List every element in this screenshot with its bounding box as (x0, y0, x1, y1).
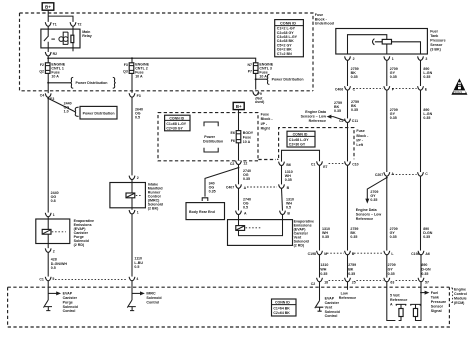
svg-text:GY: GY (388, 267, 394, 271)
svg-text:428: 428 (51, 257, 57, 261)
connector C1 pin 5 (ECM) (39, 277, 54, 282)
svg-text:1: 1 (53, 213, 55, 217)
svg-text:25: 25 (352, 281, 356, 285)
wire fuse N7 to F9 (255, 73, 257, 89)
svg-text:I/P -: I/P - (261, 122, 268, 126)
fuel tank pressure sensor label (430, 29, 445, 51)
wire 2759 BK 0.35 C406 to C2/C11 (347, 90, 349, 118)
wire B+ to relay branch (48, 10, 73, 22)
svg-text:Purge: Purge (63, 300, 73, 304)
junction bus at F2 (47, 57, 49, 59)
wire 890 L-GN 0.35 C406 to C207 (420, 90, 422, 172)
svg-text:IMRC: IMRC (146, 292, 156, 296)
svg-text:B+: B+ (236, 104, 242, 109)
connector C198 pin A6 (411, 251, 430, 256)
svg-text:Engine Data: Engine Data (305, 110, 327, 114)
wire label 2709 GY 0.35 (ecm) (388, 263, 396, 276)
wire 2740 OG 0.5 (238, 188, 240, 210)
svg-text:Vent: Vent (325, 305, 333, 309)
fuse block I/P left label (356, 129, 369, 147)
svg-text:Reference: Reference (390, 298, 407, 302)
svg-text:Fuel: Fuel (430, 29, 437, 33)
svg-text:Solenoid: Solenoid (146, 296, 161, 300)
connector terminal T1 (45, 22, 51, 26)
svg-text:CONN ID: CONN ID (275, 301, 290, 305)
wire label 890 L-GN 0.35 (423, 67, 432, 79)
connector C1 pin 4 (ECM) (129, 277, 138, 281)
svg-text:57: 57 (425, 281, 429, 285)
svg-text:Signal: Signal (431, 309, 442, 313)
svg-text:10 A: 10 A (51, 74, 59, 78)
svg-text:5C021: 5C021 (454, 90, 462, 94)
svg-text:C2=30 GY: C2=30 GY (166, 127, 183, 131)
svg-text:0.35: 0.35 (322, 235, 329, 239)
svg-text:F2: F2 (40, 63, 44, 67)
svg-text:C1=68 L-GY: C1=68 L-GY (289, 138, 309, 142)
svg-text:0.35: 0.35 (334, 109, 341, 113)
fuse N7 ENGINE CNTL 3 (248, 62, 274, 78)
svg-text:C10: C10 (352, 163, 358, 167)
svg-text:Power Distribution: Power Distribution (76, 81, 108, 85)
wire label 1310 WH 0.5 (286, 197, 294, 209)
svg-text:Module: Module (454, 296, 467, 300)
svg-text:A: A (390, 302, 393, 306)
svg-text:L-BU: L-BU (134, 261, 143, 265)
connector terminal R2 (45, 52, 51, 56)
svg-text:Fuel: Fuel (431, 291, 438, 295)
wire through fuse block I/P left (347, 123, 349, 162)
EVAP purge control label (63, 292, 78, 314)
wire label 2759 BK 0.35 (branch) (334, 101, 342, 113)
svg-text:M: M (324, 252, 327, 256)
ECM dashed boundary (8, 287, 450, 327)
svg-text:WH: WH (320, 267, 326, 271)
5 volt reference network (387, 282, 406, 321)
svg-text:(2 BK): (2 BK) (148, 206, 159, 210)
svg-text:C2=30 GY: C2=30 GY (289, 143, 306, 147)
svg-text:10 A: 10 A (259, 74, 267, 78)
svg-text:Tank: Tank (431, 296, 439, 300)
svg-text:Power: Power (204, 135, 215, 139)
svg-text:Power Distribution: Power Distribution (83, 111, 115, 115)
connector C407 pin B (279, 184, 290, 189)
svg-text:EVAP: EVAP (325, 297, 335, 301)
svg-text:Control: Control (146, 300, 159, 304)
connector pin row dotted C1 (55, 278, 127, 280)
svg-text:C1=68 L-GY: C1=68 L-GY (166, 122, 186, 126)
svg-text:0.5: 0.5 (286, 205, 291, 209)
connector terminal T2 (70, 22, 76, 26)
svg-text:0.35: 0.35 (390, 116, 397, 120)
svg-text:E6: E6 (231, 131, 235, 135)
svg-text:C207: C207 (375, 173, 383, 177)
svg-text:BK: BK (348, 267, 354, 271)
fuse block I/P right dashed boundary (158, 113, 258, 161)
wire label 2740 OG 0.5 (243, 197, 251, 209)
svg-text:T2: T2 (77, 22, 81, 26)
connector C4 / E3 (40, 93, 55, 100)
connector C2 pin 25 (345, 278, 384, 285)
svg-text:63: 63 (390, 281, 394, 285)
svg-text:Tank: Tank (430, 34, 438, 38)
svg-text:0.5: 0.5 (134, 265, 139, 269)
power distribution reference tap (F2) (47, 77, 115, 88)
svg-text:0.35: 0.35 (423, 235, 430, 239)
svg-text:B6: B6 (286, 163, 291, 167)
wire label 1310 WH 0.35 (mid) (322, 227, 330, 239)
connector C1 / E7 row (311, 161, 344, 169)
svg-text:(ECM): (ECM) (454, 301, 465, 305)
main relay coil assembly (51, 26, 73, 51)
svg-text:P7: P7 (248, 70, 252, 74)
svg-text:Sensors – Low: Sensors – Low (356, 213, 382, 217)
EVAP purge solenoid label (74, 219, 94, 247)
svg-text:5: 5 (52, 277, 54, 281)
svg-text:C2: C2 (311, 282, 316, 286)
wire 2640 OG 0.5 (131, 97, 133, 175)
svg-text:Left: Left (356, 143, 363, 147)
svg-text:C198: C198 (308, 252, 316, 256)
svg-text:used): used) (255, 100, 264, 104)
svg-text:Engine: Engine (454, 288, 466, 292)
svg-text:F6: F6 (231, 139, 235, 143)
svg-text:0.35: 0.35 (370, 198, 377, 202)
connector pin 2 (FTP sensor) (345, 56, 355, 61)
connector pin 1 (IMRC solenoid) (129, 210, 139, 214)
svg-text:Fuse: Fuse (243, 135, 251, 139)
svg-text:B+: B+ (45, 4, 51, 9)
svg-text:Sensor: Sensor (430, 43, 443, 47)
wire label 1310 WH 0.35 (285, 170, 293, 182)
svg-text:0.35: 0.35 (421, 272, 428, 276)
svg-text:2: 2 (53, 250, 55, 254)
wire label 890 D-GN 0.35 (lower) (423, 227, 433, 239)
wire 1310 WH 0.35 C407 to B6 (281, 166, 283, 185)
fuel tank pressure sensor box (336, 29, 428, 55)
wire jumper B6 to C1 inside fuse block (282, 150, 320, 161)
internal resistor 2 (410, 293, 421, 321)
svg-text:D-GN/WH: D-GN/WH (51, 262, 68, 266)
IMRC solenoid control driver (127, 281, 145, 311)
svg-text:R2: R2 (53, 52, 58, 56)
svg-text:C2=64 BK: C2=64 BK (273, 311, 290, 315)
svg-text:Power Distribution: Power Distribution (272, 78, 304, 82)
connector pin A (EVAP vent solenoid) (236, 211, 247, 216)
wire label 2740 OG 0.35 (243, 169, 251, 181)
connector C407 pin A (226, 184, 247, 189)
svg-text:C1: C1 (311, 162, 316, 166)
svg-text:2: 2 (353, 57, 355, 61)
wire 2440 OG 0.8 down to purge solenoid (47, 97, 49, 212)
svg-text:Engine Data: Engine Data (356, 208, 378, 212)
svg-text:Reference: Reference (309, 119, 326, 123)
engine data sensors low reference label (top) (301, 110, 327, 123)
engine control module label (451, 288, 466, 305)
connector C2 pin 12 (230, 161, 247, 166)
svg-text:0.35: 0.35 (423, 116, 430, 120)
wire 340 OG 0.35 branch to body rear end (202, 167, 239, 201)
wire 1110 L-BU 0.5 (131, 214, 133, 277)
svg-text:C2: C2 (339, 119, 344, 123)
connector pin 1 (EVAP purge solenoid) (45, 213, 55, 217)
wire 2440 OG 1.0 tap to power distribution (47, 98, 78, 117)
connector pin 2 (IMRC solenoid) (129, 176, 139, 180)
svg-text:C1=64 BK: C1=64 BK (273, 306, 290, 310)
svg-text:0.35: 0.35 (209, 189, 216, 193)
svg-text:Block -: Block - (356, 134, 369, 138)
IMRC solenoid box (110, 180, 145, 210)
5 volt reference label (390, 294, 407, 307)
connector C406 row (335, 86, 428, 91)
svg-text:(2 RD): (2 RD) (294, 243, 305, 247)
svg-text:Block -: Block - (261, 117, 274, 121)
B+ battery feed box B+ (top left) (42, 3, 54, 10)
svg-text:I/P -: I/P - (356, 138, 363, 142)
svg-text:2709: 2709 (388, 263, 396, 267)
wire 1310 WH 0.35 C1 to C198 (319, 165, 321, 250)
wire label 2440 OG 1.0 (64, 101, 72, 113)
wire label 1110 L-BU 0.5 (134, 256, 143, 269)
fuel tank pressure sensor signal tap (420, 282, 429, 295)
CONN ID table ECM (272, 299, 297, 316)
fuse F2 ENGINE CNTL 1 (39, 62, 65, 78)
wire 2759 BK 0.35 C10 to C198 (347, 165, 349, 250)
svg-text:0.35: 0.35 (351, 108, 358, 112)
svg-text:Underhood: Underhood (315, 22, 334, 26)
connector F9 (not used) (253, 91, 265, 104)
svg-text:Body Rear End: Body Rear End (189, 210, 215, 214)
svg-text:Q2: Q2 (39, 70, 44, 74)
svg-text:12: 12 (243, 162, 247, 166)
svg-text:4: 4 (136, 277, 138, 281)
svg-text:0.8: 0.8 (51, 199, 56, 203)
svg-text:18: 18 (324, 281, 328, 285)
svg-text:C2: C2 (230, 162, 235, 166)
engine data sensors low reference tap (top) (327, 115, 348, 122)
svg-text:0.35: 0.35 (243, 177, 250, 181)
EVAP canister vent solenoid box (228, 215, 293, 246)
svg-text:1: 1 (392, 57, 394, 61)
connector B6 (fuse block I/P) (279, 162, 291, 167)
svg-text:0.35: 0.35 (320, 272, 327, 276)
wire label 2709 GY 0.35 (mid) (390, 108, 398, 120)
svg-text:Relay: Relay (82, 34, 92, 38)
wire label 2759 BK 0.35 (351, 67, 359, 79)
wire R2 to fuse bus (47, 56, 49, 63)
svg-text:0.35: 0.35 (285, 178, 292, 182)
wire label 1310 WH 0.35 (ecm) (320, 263, 328, 276)
wire 2709 GY 0.35 C406 to C207 (386, 90, 388, 172)
wire 890 L-GN 0.35 pin3 to C406 (420, 60, 422, 86)
fuse block I/P left dashed boundary (258, 128, 354, 160)
power feed bus wire to three fuses (48, 58, 256, 63)
svg-text:Sensor: Sensor (431, 304, 444, 308)
svg-text:(3 BK): (3 BK) (430, 47, 441, 51)
svg-text:Q3: Q3 (123, 70, 128, 74)
svg-text:1310: 1310 (320, 263, 328, 267)
svg-text:CONN ID: CONN ID (280, 21, 296, 25)
fuse block underhood dashed boundary (20, 13, 314, 91)
connector C207 pin A (375, 172, 417, 177)
warning triangle note 11 (451, 78, 467, 94)
svg-text:C406: C406 (335, 88, 343, 92)
svg-text:Solenoid: Solenoid (325, 310, 340, 314)
fuse block I/P right label (261, 113, 274, 131)
svg-text:N7: N7 (248, 63, 253, 67)
svg-text:0.35: 0.35 (348, 272, 355, 276)
connector C2 pin 18 (311, 278, 344, 286)
wire label 340 OG 0.35 (209, 181, 216, 193)
svg-text:890: 890 (421, 263, 427, 267)
power distribution reference box (80, 106, 117, 119)
svg-text:0.5: 0.5 (243, 205, 248, 209)
power distribution reference tap (N7) (255, 74, 304, 84)
fuel tank pressure sensor signal label (431, 291, 446, 313)
svg-text:Right: Right (261, 126, 271, 130)
wire 890 D-GN 0.35 C198 to ECM (420, 255, 422, 278)
wire 2709 GY 0.35 C207 to C198 (386, 176, 388, 250)
svg-text:A6: A6 (425, 252, 430, 256)
svg-text:Canister: Canister (63, 296, 78, 300)
svg-text:0.35: 0.35 (388, 272, 395, 276)
svg-text:1: 1 (137, 210, 139, 214)
connector pin 3 (FTP sensor) (418, 56, 428, 61)
connector C2 pin 63 (384, 278, 418, 285)
wire 890 D-GN 0.35 C207 to C198 (420, 176, 422, 250)
svg-text:Pressure: Pressure (431, 300, 446, 304)
engine data sensors low reference tap (C207) (365, 177, 387, 204)
connector C207 pin C (418, 172, 429, 176)
low reference stub (347, 282, 349, 290)
connector C10 (fuse block I/P left) (345, 161, 359, 166)
main relay box (41, 29, 92, 48)
CONN ID table I/P left (287, 131, 315, 147)
svg-text:Sensors – Low: Sensors – Low (301, 115, 327, 119)
wire 2709 GY 0.35 pin1 to C406 (386, 60, 388, 86)
svg-text:(2 RD): (2 RD) (74, 243, 85, 247)
connector pin 2 (EVAP purge solenoid) (45, 248, 55, 253)
wire label 428 D-GN/WH 0.5 (51, 257, 68, 270)
svg-text:0.5: 0.5 (135, 116, 140, 120)
fuse E6 BODY (231, 131, 254, 144)
wire label 2640 OG 0.5 (135, 108, 143, 120)
svg-text:0.35: 0.35 (350, 235, 357, 239)
svg-text:0.5: 0.5 (51, 266, 56, 270)
wire label 2440 OG 0.8 (51, 191, 59, 203)
svg-text:T1: T1 (53, 22, 57, 26)
wire fuse F3 down to connector F3 (131, 73, 133, 92)
wire label 2759 BK 0.35 (lower) (350, 227, 358, 239)
wire 2759 BK 0.35 C198 to ECM (347, 255, 349, 278)
svg-text:Low: Low (341, 291, 348, 295)
wire relay to R2 (47, 48, 49, 52)
svg-text:3: 3 (425, 57, 427, 61)
wire fuse E6 to C2 (238, 143, 240, 161)
svg-text:1110: 1110 (134, 256, 142, 260)
svg-text:CONN ID: CONN ID (169, 116, 184, 120)
svg-text:Fuse: Fuse (261, 113, 269, 117)
wire label 2709 GY 0.35 (390, 67, 398, 79)
wire 2759 BK 0.35 pin2 to C406 (347, 60, 349, 86)
svg-text:CONN ID: CONN ID (293, 132, 308, 136)
connector pin 1 (FTP sensor) (384, 56, 394, 61)
CONN ID table I/P right (165, 115, 190, 131)
svg-text:Pressure: Pressure (430, 38, 445, 42)
svg-text:Control: Control (454, 292, 467, 296)
fuse block underhood label (315, 13, 334, 25)
svg-text:Fuse: Fuse (356, 129, 364, 133)
body rear end reference box (186, 203, 225, 220)
svg-text:F3: F3 (137, 94, 141, 98)
wire label 2709 GY 0.35 (tap) (370, 190, 378, 202)
main relay switch contact (44, 26, 48, 48)
low reference label (339, 291, 356, 299)
svg-text:C11: C11 (352, 119, 358, 123)
svg-text:D-GN: D-GN (421, 267, 431, 271)
svg-text:E7: E7 (323, 165, 327, 169)
wire 428 D-GN/WH 0.5 (47, 252, 49, 276)
svg-text:Reference: Reference (356, 217, 373, 221)
svg-text:Distribution: Distribution (203, 139, 223, 143)
engine data sensors low reference label (bottom) (356, 208, 382, 221)
svg-text:2: 2 (137, 176, 139, 180)
svg-text:Canister: Canister (325, 301, 340, 305)
svg-text:C1: C1 (39, 277, 44, 281)
svg-text:Solenoid: Solenoid (63, 305, 78, 309)
svg-text:5 Volt: 5 Volt (390, 294, 400, 298)
connector C2 / C11 (339, 119, 358, 124)
wire fuse F2 down to C4 (47, 73, 49, 93)
wire 2709 GY 0.35 C198 to ECM (386, 255, 388, 278)
EVAP canister purge solenoid control driver (44, 281, 62, 311)
connector F3 (underhood) (129, 93, 141, 98)
IMRC solenoid label (148, 182, 163, 210)
wire label 2709 GY 0.35 (lower) (390, 227, 398, 239)
wire B+ to fuse E6 (238, 110, 240, 131)
EVAP vent control label (325, 297, 340, 319)
svg-text:C4: C4 (40, 93, 45, 97)
wire label 2759 BK 0.35 (main) (351, 100, 359, 112)
svg-text:EVAP: EVAP (63, 292, 73, 296)
svg-text:Control: Control (63, 309, 76, 313)
svg-text:F3: F3 (124, 63, 128, 67)
svg-text:Control: Control (325, 314, 338, 318)
CONN ID table underhood (275, 20, 304, 57)
B+ battery feed box (I/P) (233, 102, 244, 109)
wire label 890 L-GN 0.35 (mid) (423, 108, 432, 120)
svg-text:10 A: 10 A (243, 140, 251, 144)
svg-text:10 A: 10 A (135, 74, 143, 78)
wire label 2759 BK 0.35 (ecm) (348, 263, 356, 276)
connector pin B (EVAP vent solenoid) (280, 211, 291, 216)
wire 1310 WH 0.5 vent to C407 (282, 188, 283, 210)
svg-text:0.35: 0.35 (390, 235, 397, 239)
connector C407 dotted row (247, 186, 277, 188)
EVAP vent solenoid label (294, 219, 314, 247)
svg-text:Reference: Reference (339, 296, 356, 300)
connector C198 row M B L (308, 251, 395, 256)
svg-text:0.35: 0.35 (351, 75, 358, 79)
svg-text:2759: 2759 (348, 263, 356, 267)
svg-text:BODY: BODY (243, 131, 254, 135)
wire 2740 OG 0.35 (238, 165, 240, 185)
connector C2 pin 57 (418, 278, 429, 285)
svg-text:1.0: 1.0 (64, 109, 69, 113)
svg-text:0.35: 0.35 (423, 75, 430, 79)
wire label 890 D-GN 0.35 (ecm) (421, 263, 431, 276)
EVAP canister purge solenoid box (36, 217, 70, 248)
IMRC control label (146, 292, 161, 305)
